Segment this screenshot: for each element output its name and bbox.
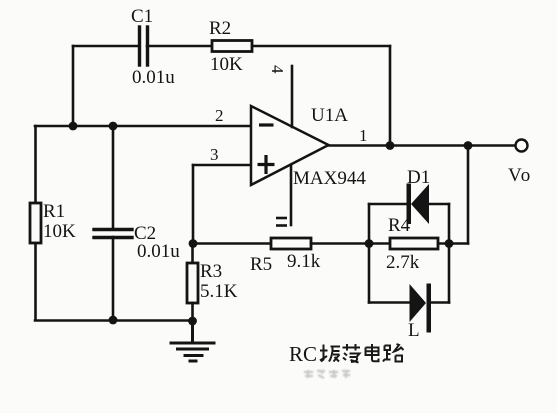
svg-text:R4: R4 — [388, 215, 411, 236]
svg-text:5.1K: 5.1K — [200, 281, 238, 302]
wire top vertical x=73 down to node A — [72, 46, 75, 126]
junction node on pin2 row at x=73 — [69, 122, 78, 131]
label pin 11 (rotated) — [276, 218, 287, 226]
caption glyph zhen — [320, 345, 340, 362]
svg-text:9.1k: 9.1k — [287, 251, 321, 272]
faint watermark — [304, 370, 350, 378]
diode D1 — [407, 184, 430, 225]
wire parallel-box left rail — [368, 204, 371, 303]
op-amp pin 11 stub — [290, 166, 293, 225]
wire middle row pin3-junction to R5 — [193, 242, 271, 245]
wire R5 to parallel-box left node — [311, 242, 369, 245]
wire C2 branch upper — [112, 126, 115, 229]
wire parallel-box right rail — [448, 204, 451, 303]
svg-text:0.01u: 0.01u — [132, 67, 175, 88]
resistor R1 — [30, 203, 41, 243]
wire L branch left — [369, 301, 410, 304]
wire vertical pin3 to middle row — [192, 165, 195, 244]
wire R4 row right — [438, 242, 468, 245]
junction node parallel-box right — [445, 239, 454, 248]
caption glyph dang — [343, 344, 361, 363]
caption glyph dian — [366, 344, 379, 361]
wire non-inverting input row (pin 3) — [193, 164, 251, 167]
svg-text:RC: RC — [289, 342, 317, 366]
svg-text:R3: R3 — [200, 261, 222, 282]
output terminal circle — [516, 140, 528, 152]
svg-text:MAX944: MAX944 — [293, 168, 366, 189]
wire bottom rail — [35, 319, 193, 322]
op-amp minus symbol — [259, 123, 274, 126]
svg-text:2.7k: 2.7k — [386, 252, 420, 273]
svg-text:R1: R1 — [43, 201, 65, 222]
wire vertical x=390 down to output node — [389, 46, 392, 146]
caption glyph lu — [383, 344, 404, 362]
op-amp U1A triangle — [251, 106, 329, 185]
svg-text:10K: 10K — [43, 221, 76, 242]
wire D1 branch left — [369, 203, 408, 206]
svg-text:4: 4 — [268, 65, 287, 74]
junction node bottom rail C2 — [109, 316, 118, 325]
resistor R4 — [390, 238, 438, 249]
resistor R5 — [271, 238, 311, 249]
junction node output at x=390 — [386, 141, 395, 150]
wire R4 row left — [369, 242, 390, 245]
svg-text:10K: 10K — [210, 54, 243, 75]
wire C2 branch lower — [112, 237, 115, 320]
capacitor C2 — [94, 230, 132, 238]
wire R3 stub lower — [191, 303, 194, 322]
resistor R3 — [187, 263, 198, 303]
svg-text:Vo: Vo — [508, 165, 532, 186]
wire output row pin 1 — [329, 144, 515, 147]
junction node on pin2 row at x=113 — [109, 122, 118, 131]
wire L branch right — [428, 301, 449, 304]
wire top-left from C1 left to corner — [73, 45, 139, 48]
op-amp pin 4 stub — [291, 66, 294, 127]
ground — [171, 322, 214, 361]
op-amp plus symbol — [258, 155, 275, 174]
diode L — [410, 284, 432, 333]
svg-text:R2: R2 — [209, 18, 231, 39]
svg-text:0.01u: 0.01u — [137, 241, 180, 262]
junction node middle row R3 — [189, 239, 198, 248]
svg-text:U1A: U1A — [311, 105, 348, 126]
wire output drop to R4 row — [467, 146, 470, 244]
wire R2 to top-right corner — [252, 45, 390, 48]
wire inverting input row (pin 2) — [35, 125, 251, 128]
junction node bottom rail ground — [188, 317, 197, 326]
svg-text:L: L — [408, 320, 420, 341]
wire left rail upper — [34, 126, 37, 203]
junction node output at x=468 — [464, 141, 473, 150]
wire D1 branch right — [429, 203, 449, 206]
wire R3 stub upper — [191, 244, 194, 264]
svg-text:1: 1 — [359, 126, 368, 145]
resistor R2 — [212, 41, 252, 52]
svg-text:3: 3 — [210, 145, 219, 164]
junction node parallel-box left — [365, 239, 374, 248]
svg-text:D1: D1 — [407, 167, 430, 188]
wire C1 to R2 — [147, 45, 212, 48]
capacitor C1 — [140, 27, 148, 65]
svg-text:2: 2 — [215, 106, 224, 125]
svg-text:R5: R5 — [250, 254, 272, 275]
wire left rail lower — [34, 243, 37, 320]
svg-text:C1: C1 — [131, 6, 153, 27]
